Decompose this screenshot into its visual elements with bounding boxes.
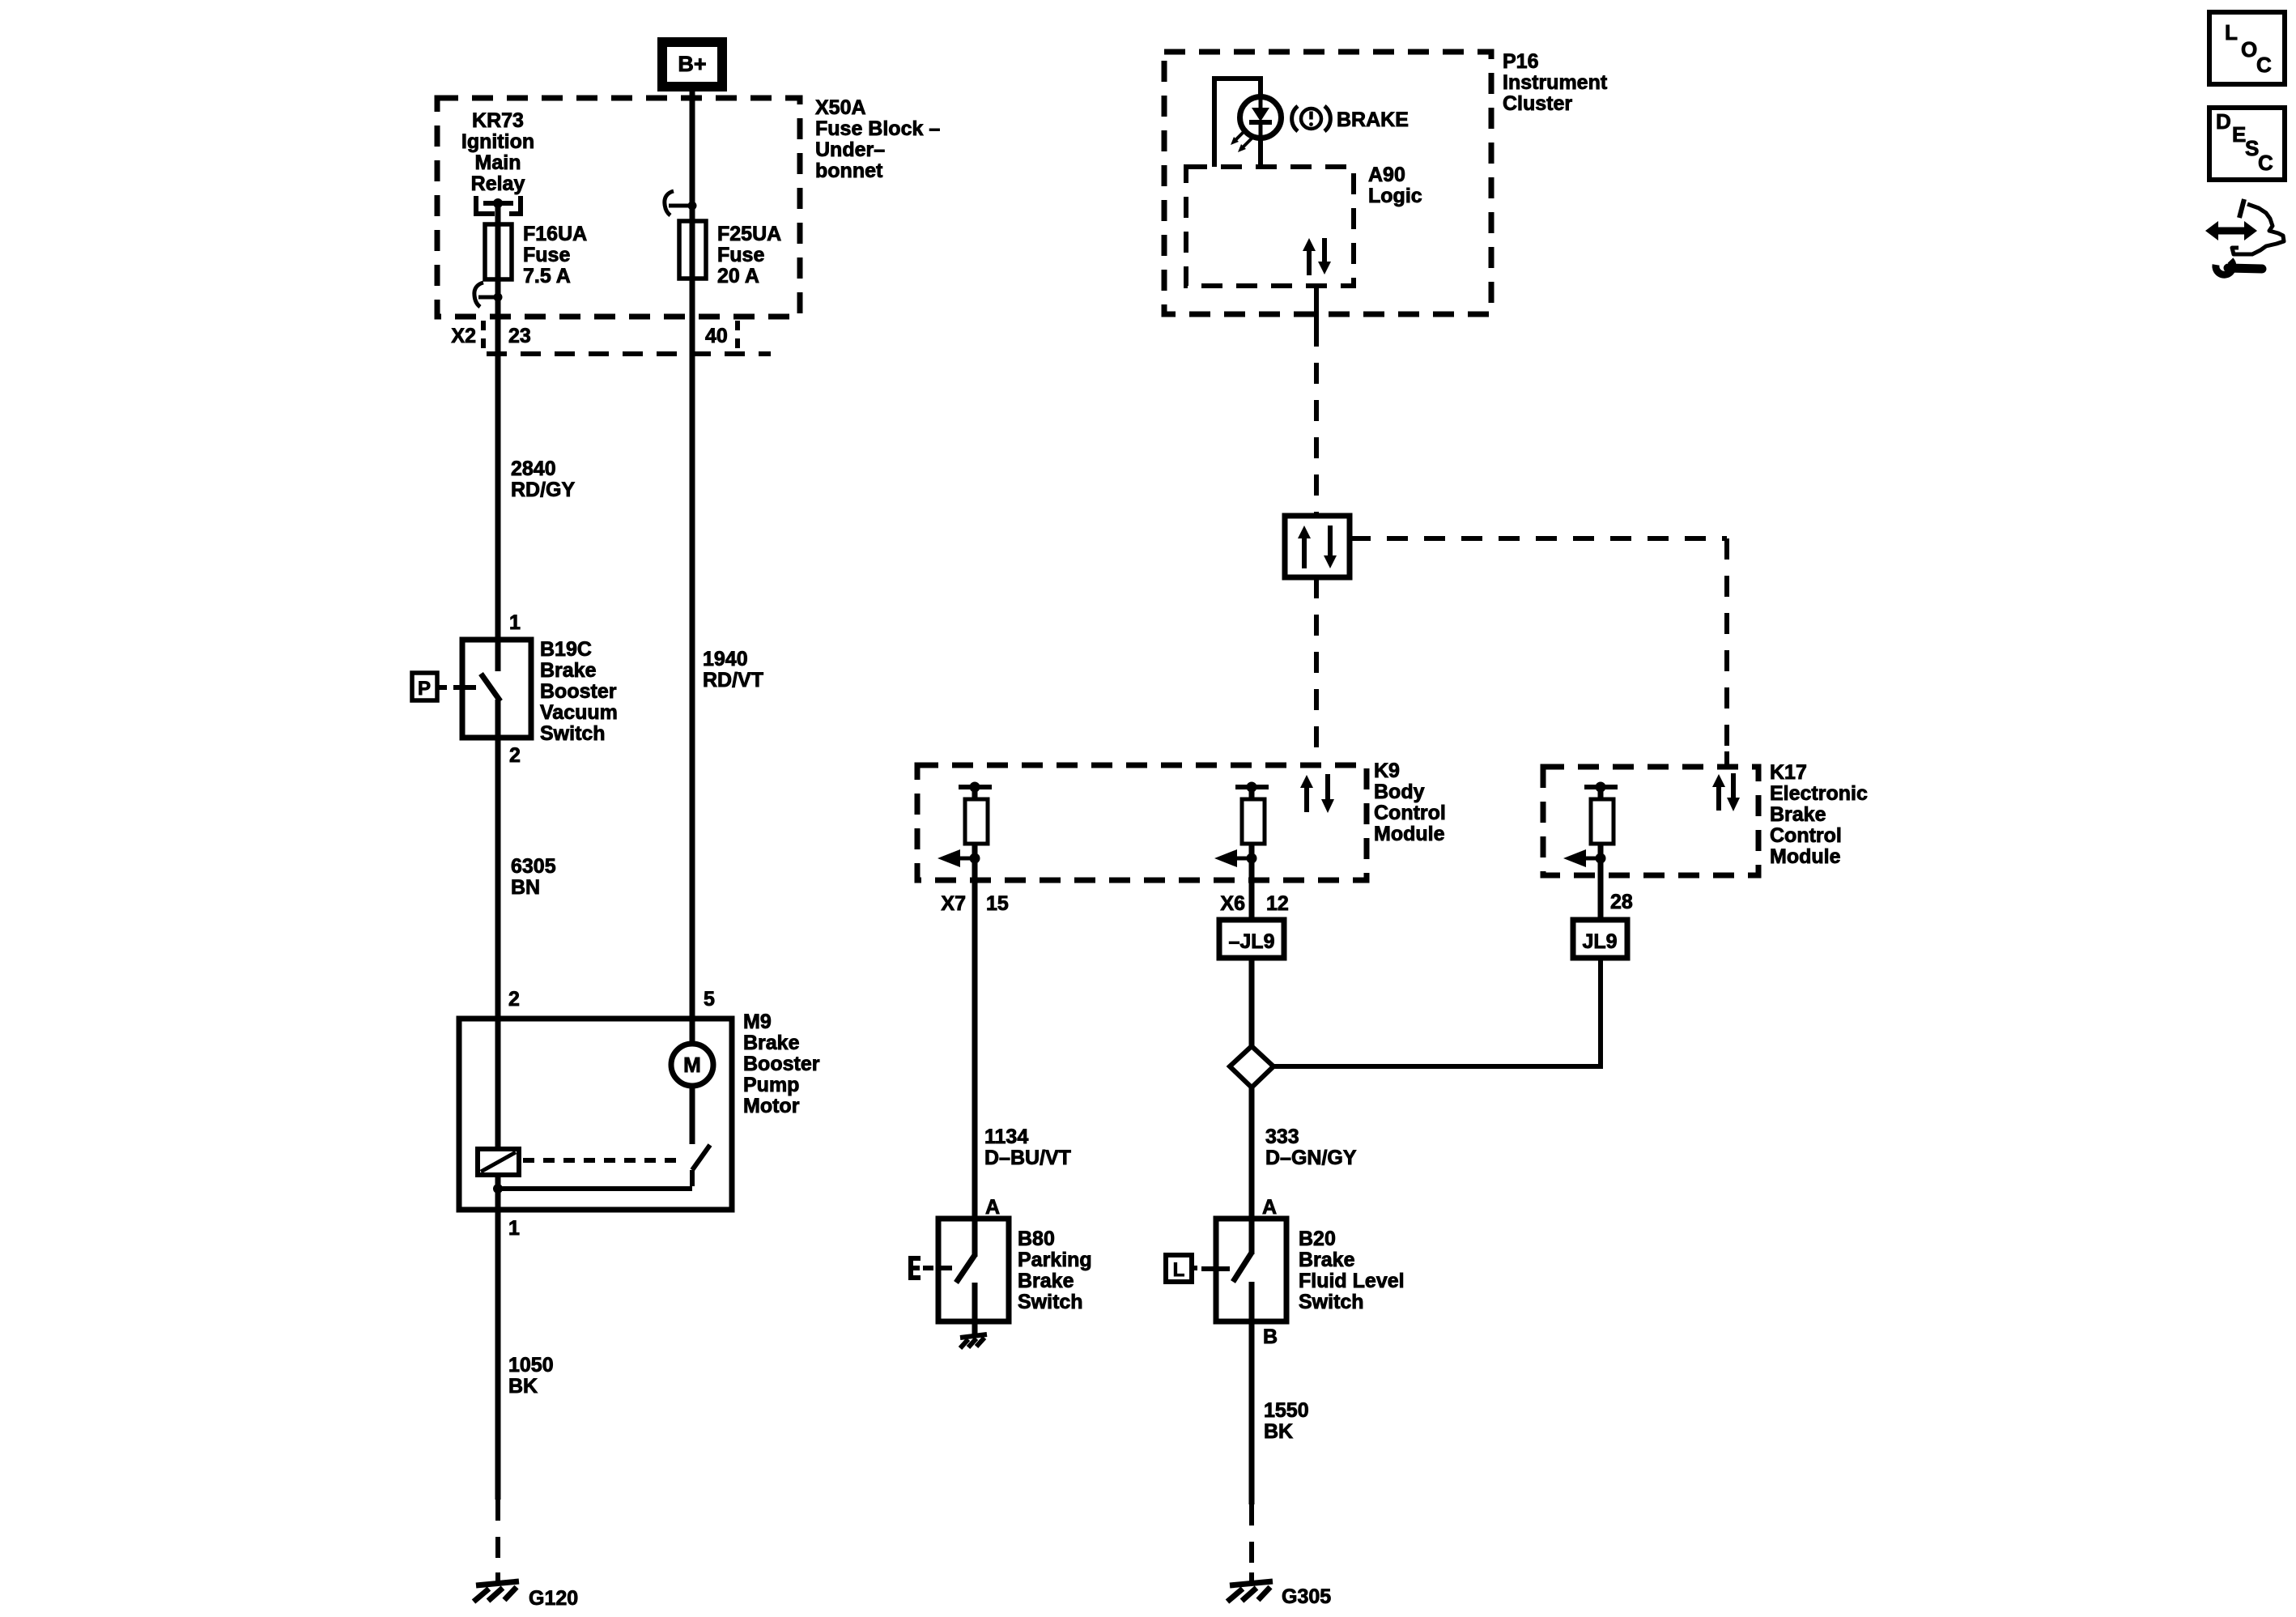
svg-text:Fuse: Fuse bbox=[717, 244, 764, 266]
switch B20 box bbox=[1216, 1219, 1286, 1321]
serial data arrows in K9 bbox=[1304, 787, 1309, 812]
serial data arrows in gateway box bbox=[1302, 538, 1307, 568]
wire 1050 BK dashed part to ground bbox=[495, 1500, 500, 1573]
switch B19C box bbox=[462, 640, 531, 738]
wire 1550 BK dashed part bbox=[1249, 1504, 1254, 1573]
wire motor to M9 internal switch bbox=[690, 1086, 695, 1144]
connector X2 divider left bbox=[481, 321, 486, 351]
svg-text:Electronic: Electronic bbox=[1770, 782, 1868, 805]
svg-text:A: A bbox=[1262, 1196, 1277, 1219]
svg-text:Body: Body bbox=[1374, 781, 1425, 803]
svg-text:P16: P16 bbox=[1503, 50, 1538, 73]
logic module A90 dashed box bbox=[1186, 167, 1354, 286]
svg-text:Ignition: Ignition bbox=[461, 130, 534, 153]
svg-text:23: 23 bbox=[508, 325, 531, 347]
svg-text:Control: Control bbox=[1770, 824, 1842, 847]
wire 2840 RD/GY (left vertical, fuse F16UA to B19C) bbox=[495, 203, 501, 671]
wire 6305 BN (B19C pin 2 down to M9 relay coil) bbox=[495, 700, 501, 1149]
svg-text:P: P bbox=[418, 678, 431, 700]
svg-text:O: O bbox=[2241, 37, 2257, 62]
svg-text:BK: BK bbox=[1264, 1420, 1293, 1443]
wire JL9 down to splice line bbox=[1598, 958, 1603, 1066]
wire 1050 BK (M9 pin 1 down, solid part) bbox=[495, 1175, 501, 1500]
svg-text:L: L bbox=[2225, 20, 2238, 45]
option box JL9 bbox=[1573, 920, 1627, 958]
svg-text:Switch: Switch bbox=[1299, 1291, 1364, 1313]
LED loop wiring bbox=[1214, 79, 1261, 167]
svg-text:BRAKE: BRAKE bbox=[1337, 109, 1409, 131]
svg-text:2: 2 bbox=[508, 988, 520, 1011]
svg-text:1550: 1550 bbox=[1264, 1399, 1309, 1422]
svg-text:Switch: Switch bbox=[1018, 1291, 1083, 1313]
svg-text:Cluster: Cluster bbox=[1503, 92, 1572, 115]
svg-text:Brake: Brake bbox=[743, 1032, 800, 1054]
svg-text:Parking: Parking bbox=[1018, 1249, 1092, 1271]
svg-text:A90: A90 bbox=[1368, 164, 1405, 186]
svg-text:Fuse: Fuse bbox=[523, 244, 570, 266]
terminal X7/15 in K9 bbox=[959, 785, 992, 789]
svg-text:Switch: Switch bbox=[540, 722, 606, 745]
LED emission arrows bbox=[1235, 129, 1247, 140]
switch B19C contact stub bbox=[495, 640, 501, 671]
fuse block X50A dashed box bbox=[437, 98, 800, 317]
svg-text:F16UA: F16UA bbox=[523, 223, 587, 245]
LED diode bbox=[1259, 98, 1263, 109]
svg-text:Control: Control bbox=[1374, 802, 1446, 824]
svg-text:BN: BN bbox=[511, 876, 540, 899]
svg-text:12: 12 bbox=[1266, 892, 1289, 915]
svg-text:–JL9: –JL9 bbox=[1229, 930, 1275, 953]
svg-text:A: A bbox=[985, 1196, 1000, 1219]
svg-text:6305: 6305 bbox=[511, 855, 556, 878]
wire -JL9 to splice diamond bbox=[1249, 958, 1255, 1046]
svg-text:G305: G305 bbox=[1282, 1585, 1331, 1608]
B20 actuator tick bbox=[1216, 1266, 1230, 1271]
svg-text:Instrument: Instrument bbox=[1503, 71, 1608, 94]
svg-text:333: 333 bbox=[1265, 1126, 1299, 1148]
svg-text:G120: G120 bbox=[529, 1587, 578, 1610]
brake warning icon circle bbox=[1301, 109, 1321, 129]
svg-text:D: D bbox=[2216, 109, 2231, 134]
car front outline icon bbox=[2232, 204, 2284, 254]
svg-text:7.5 A: 7.5 A bbox=[523, 265, 571, 287]
svg-text:15: 15 bbox=[986, 892, 1009, 915]
terminal hook above F25UA bbox=[665, 191, 674, 215]
wire X7 pin 15 (K9 to B80) bbox=[972, 787, 978, 1219]
svg-text:X2: X2 bbox=[451, 325, 476, 347]
relay contact blade in M9 bbox=[692, 1145, 710, 1170]
switch B19C blade bbox=[481, 674, 500, 701]
svg-text:F25UA: F25UA bbox=[717, 223, 781, 245]
option box -JL9 bbox=[1219, 920, 1284, 958]
svg-text:K9: K9 bbox=[1374, 760, 1400, 782]
terminal X6/12 in K9 bbox=[1235, 785, 1269, 789]
terminal 28 in K17 bbox=[1584, 785, 1618, 789]
switch B19C actuator tick bbox=[462, 685, 476, 690]
motor module M9 box bbox=[459, 1019, 732, 1210]
switch B80 actuator tick bbox=[938, 1266, 952, 1270]
svg-text:1940: 1940 bbox=[703, 648, 748, 670]
switch B80 contact stub bbox=[972, 1219, 978, 1257]
svg-text:1050: 1050 bbox=[508, 1354, 554, 1377]
svg-text:28: 28 bbox=[1610, 891, 1633, 913]
svg-text:Motor: Motor bbox=[743, 1095, 800, 1117]
svg-text:Fluid Level: Fluid Level bbox=[1299, 1270, 1405, 1292]
body control module K9 dashed box bbox=[917, 765, 1367, 880]
ground G305 bbox=[1227, 1581, 1273, 1602]
instrument cluster P16 dashed box bbox=[1164, 52, 1491, 314]
E symbol dashed actuator line bbox=[923, 1266, 938, 1270]
svg-text:B: B bbox=[1263, 1326, 1278, 1348]
terminal hook below F16UA bbox=[474, 283, 483, 307]
connector X2 bottom dashed edge bbox=[487, 351, 771, 356]
switch B80 box bbox=[938, 1219, 1009, 1321]
svg-text:2: 2 bbox=[509, 744, 521, 767]
svg-text:M: M bbox=[683, 1053, 701, 1077]
serial data arrows in A90 bbox=[1307, 250, 1312, 275]
brake warning icon parens bbox=[1292, 106, 1298, 131]
switch B80 blade bbox=[956, 1255, 975, 1283]
E symbol glyph bbox=[911, 1256, 921, 1280]
relay coil in M9 bbox=[478, 1149, 519, 1175]
DESC box bbox=[2209, 108, 2285, 180]
connector X2 divider right bbox=[735, 321, 740, 351]
svg-text:Under–: Under– bbox=[815, 138, 885, 161]
svg-text:1: 1 bbox=[509, 611, 521, 634]
svg-text:M9: M9 bbox=[743, 1011, 772, 1033]
P symbol dashed actuator line bbox=[439, 685, 462, 690]
svg-text:BK: BK bbox=[508, 1375, 538, 1398]
L symbol box bbox=[1166, 1255, 1192, 1282]
svg-text:Booster: Booster bbox=[743, 1053, 820, 1075]
svg-text:Relay: Relay bbox=[471, 172, 525, 195]
svg-text:KR73: KR73 bbox=[472, 109, 524, 132]
L symbol dashed actuator line bbox=[1201, 1266, 1214, 1271]
dashed serial wire gateway to K9 bbox=[1314, 577, 1319, 762]
svg-text:X50A: X50A bbox=[815, 96, 866, 119]
svg-text:L: L bbox=[1173, 1259, 1185, 1281]
svg-text:Pump: Pump bbox=[743, 1074, 799, 1096]
svg-text:5: 5 bbox=[704, 988, 715, 1011]
svg-text:JL9: JL9 bbox=[1582, 930, 1617, 953]
fuse F25UA bbox=[679, 221, 706, 279]
wire relay contact to pin 1 bbox=[498, 1186, 692, 1191]
svg-text:Booster: Booster bbox=[540, 680, 617, 703]
svg-text:1: 1 bbox=[508, 1217, 520, 1240]
splice diamond bbox=[1230, 1046, 1273, 1087]
svg-text:Logic: Logic bbox=[1368, 185, 1422, 207]
svg-text:K17: K17 bbox=[1770, 761, 1807, 784]
svg-text:2840: 2840 bbox=[511, 457, 556, 480]
svg-text:B20: B20 bbox=[1299, 1228, 1336, 1250]
LOC box bbox=[2209, 12, 2285, 84]
P symbol box bbox=[412, 673, 437, 700]
relay KR73 contact bracket right bbox=[509, 196, 521, 214]
wire 1940 RD/VT (B+ down through fuse F25UA to M9 pin 5 / motor) bbox=[690, 91, 695, 1044]
svg-text:C: C bbox=[2256, 53, 2272, 77]
wire 333 D-GN/GY (diamond to B20) bbox=[1249, 1087, 1255, 1219]
svg-text:E: E bbox=[2232, 122, 2246, 147]
svg-text:Main: Main bbox=[475, 151, 521, 174]
svg-text:B80: B80 bbox=[1018, 1228, 1055, 1250]
relay KR73 junction dot bbox=[493, 198, 503, 208]
svg-text:D–BU/VT: D–BU/VT bbox=[984, 1147, 1071, 1169]
svg-text:Module: Module bbox=[1374, 823, 1445, 845]
dashed serial wire gateway to K17 bbox=[1350, 536, 1727, 541]
svg-text:Module: Module bbox=[1770, 845, 1841, 868]
wire A90 to serial gateway (stub + dashed) bbox=[1314, 286, 1319, 326]
ground below B80 bbox=[960, 1334, 987, 1348]
svg-text:RD/GY: RD/GY bbox=[511, 479, 576, 501]
switch B20 blade bbox=[1233, 1253, 1252, 1282]
svg-text:40: 40 bbox=[705, 325, 728, 347]
svg-text:Brake: Brake bbox=[1299, 1249, 1355, 1271]
svg-text:1134: 1134 bbox=[984, 1126, 1028, 1148]
splice horizontal wire bbox=[1273, 1064, 1603, 1069]
wrench icon bbox=[2216, 261, 2233, 275]
svg-text:S: S bbox=[2245, 136, 2259, 160]
svg-text:X6: X6 bbox=[1220, 892, 1245, 915]
fuse F16UA bbox=[485, 224, 512, 279]
serial data arrows in K17 bbox=[1716, 786, 1721, 811]
svg-text:20 A: 20 A bbox=[717, 265, 759, 287]
svg-text:Vacuum: Vacuum bbox=[540, 701, 618, 724]
svg-text:Brake: Brake bbox=[540, 659, 597, 682]
svg-text:Fuse Block –: Fuse Block – bbox=[815, 117, 940, 140]
svg-text:Brake: Brake bbox=[1770, 803, 1826, 826]
relay KR73 contact bracket left bbox=[476, 196, 495, 214]
junction dot M9 bbox=[493, 1184, 503, 1194]
ground G120 bbox=[474, 1581, 519, 1602]
relay KR73 contact bar bbox=[483, 201, 513, 206]
switch B20 contact stub bbox=[1249, 1219, 1255, 1254]
wire X6 pin 12 (K9 to -JL9) bbox=[1249, 787, 1255, 920]
B+ power feed box bbox=[662, 42, 722, 87]
svg-text:RD/VT: RD/VT bbox=[703, 669, 763, 691]
electronic brake control module K17 dashed box bbox=[1543, 767, 1758, 875]
car front icon double arrow bbox=[2218, 228, 2244, 235]
svg-text:bonnet: bonnet bbox=[815, 160, 883, 182]
motor M9 circle bbox=[671, 1044, 713, 1086]
svg-text:Brake: Brake bbox=[1018, 1270, 1074, 1292]
switch B20 bottom contact bbox=[1249, 1282, 1255, 1504]
svg-text:C: C bbox=[2258, 151, 2273, 175]
serial data gateway box bbox=[1285, 516, 1350, 577]
switch B80 bottom contact to ground bbox=[972, 1283, 978, 1336]
svg-text:D–GN/GY: D–GN/GY bbox=[1265, 1147, 1357, 1169]
svg-text:B+: B+ bbox=[678, 52, 706, 76]
LED indicator circle bbox=[1240, 97, 1282, 138]
svg-text:X7: X7 bbox=[941, 892, 966, 915]
svg-text:B19C: B19C bbox=[540, 638, 592, 661]
relay control dashed line in M9 bbox=[523, 1158, 682, 1163]
wire pin 28 (K17 to JL9) bbox=[1598, 787, 1604, 920]
